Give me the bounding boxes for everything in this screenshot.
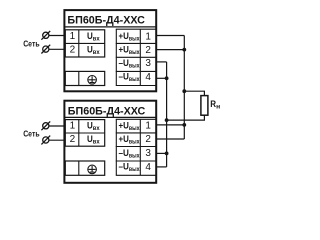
- svg-text:2: 2: [145, 134, 151, 145]
- wire U2 pin3 output to -bus: [156, 152, 167, 154]
- wire +bus vertical: [183, 36, 185, 140]
- wire U1 pin4 output to -bus: [156, 77, 167, 79]
- wire mains N to U2 pin 2: [49, 139, 65, 141]
- power supply U1 BP60B-D4-XXS outer body: [64, 10, 156, 91]
- U2 protective earth symbol: [88, 165, 97, 174]
- svg-text:1: 1: [145, 121, 151, 132]
- svg-text:БП60Б-Д4-ХХС: БП60Б-Д4-ХХС: [67, 15, 145, 27]
- wire mains L to U1 pin 1: [49, 35, 65, 37]
- wire U2 pin4 output to -bus bottom corner: [156, 166, 167, 168]
- load resistor RH body: [201, 96, 208, 116]
- svg-text:3: 3: [145, 58, 151, 69]
- svg-text:4: 4: [145, 72, 151, 83]
- junction -bus U2 pin3: [165, 152, 169, 156]
- svg-text:1: 1: [145, 31, 151, 42]
- junction +bus U1 pin2: [182, 48, 186, 52]
- junction +bus to load: [182, 89, 186, 93]
- U2 input terminal group box: [65, 120, 104, 147]
- wire -bus vertical: [166, 62, 168, 167]
- U1 protective earth symbol: [88, 76, 97, 85]
- U1 title separator line: [64, 26, 156, 28]
- mains terminal clamp symbol N (top): [41, 45, 50, 54]
- U1 earth terminal box: [65, 71, 104, 85]
- wire mains N to U1 pin 2: [49, 48, 65, 50]
- U1 output terminal group box: [116, 29, 156, 85]
- wire mains L to U2 pin 1: [49, 125, 65, 127]
- svg-text:2: 2: [70, 134, 76, 145]
- wire U1 pin1 output to +bus: [156, 35, 185, 37]
- mains terminal clamp symbol N (bottom): [41, 136, 50, 145]
- svg-text:Сеть: Сеть: [23, 128, 39, 138]
- mains terminal clamp symbol L (bottom): [41, 121, 50, 130]
- wire U1 pin3 output to -bus: [156, 61, 167, 63]
- wire U1 pin2 output to +bus: [156, 49, 185, 51]
- U2 earth terminal box: [65, 161, 104, 175]
- wire U2 pin1 output to +bus: [156, 124, 185, 126]
- power supply U2 BP60B-D4-XXS outer body: [64, 101, 156, 183]
- wire +bus to load resistor top: [184, 91, 204, 95]
- svg-text:1: 1: [70, 120, 76, 131]
- svg-text:3: 3: [145, 148, 151, 159]
- U1 input terminal group box: [65, 30, 104, 57]
- svg-text:4: 4: [145, 162, 151, 173]
- U2 title separator line: [64, 116, 156, 118]
- svg-text:БП60Б-Д4-ХХС: БП60Б-Д4-ХХС: [68, 106, 146, 118]
- svg-text:Сеть: Сеть: [23, 39, 39, 49]
- mains terminal clamp symbol L (top): [41, 31, 50, 40]
- wire load resistor bottom to -bus: [167, 115, 205, 120]
- U2 output terminal group box: [116, 119, 156, 175]
- junction +bus U2 pin1: [182, 123, 186, 127]
- junction -bus to load: [165, 118, 169, 122]
- svg-text:2: 2: [70, 45, 76, 56]
- svg-text:2: 2: [145, 45, 151, 56]
- junction -bus U1 pin4: [165, 76, 169, 80]
- wire U2 pin2 output to +bus bottom corner: [156, 138, 185, 140]
- svg-text:1: 1: [70, 31, 76, 42]
